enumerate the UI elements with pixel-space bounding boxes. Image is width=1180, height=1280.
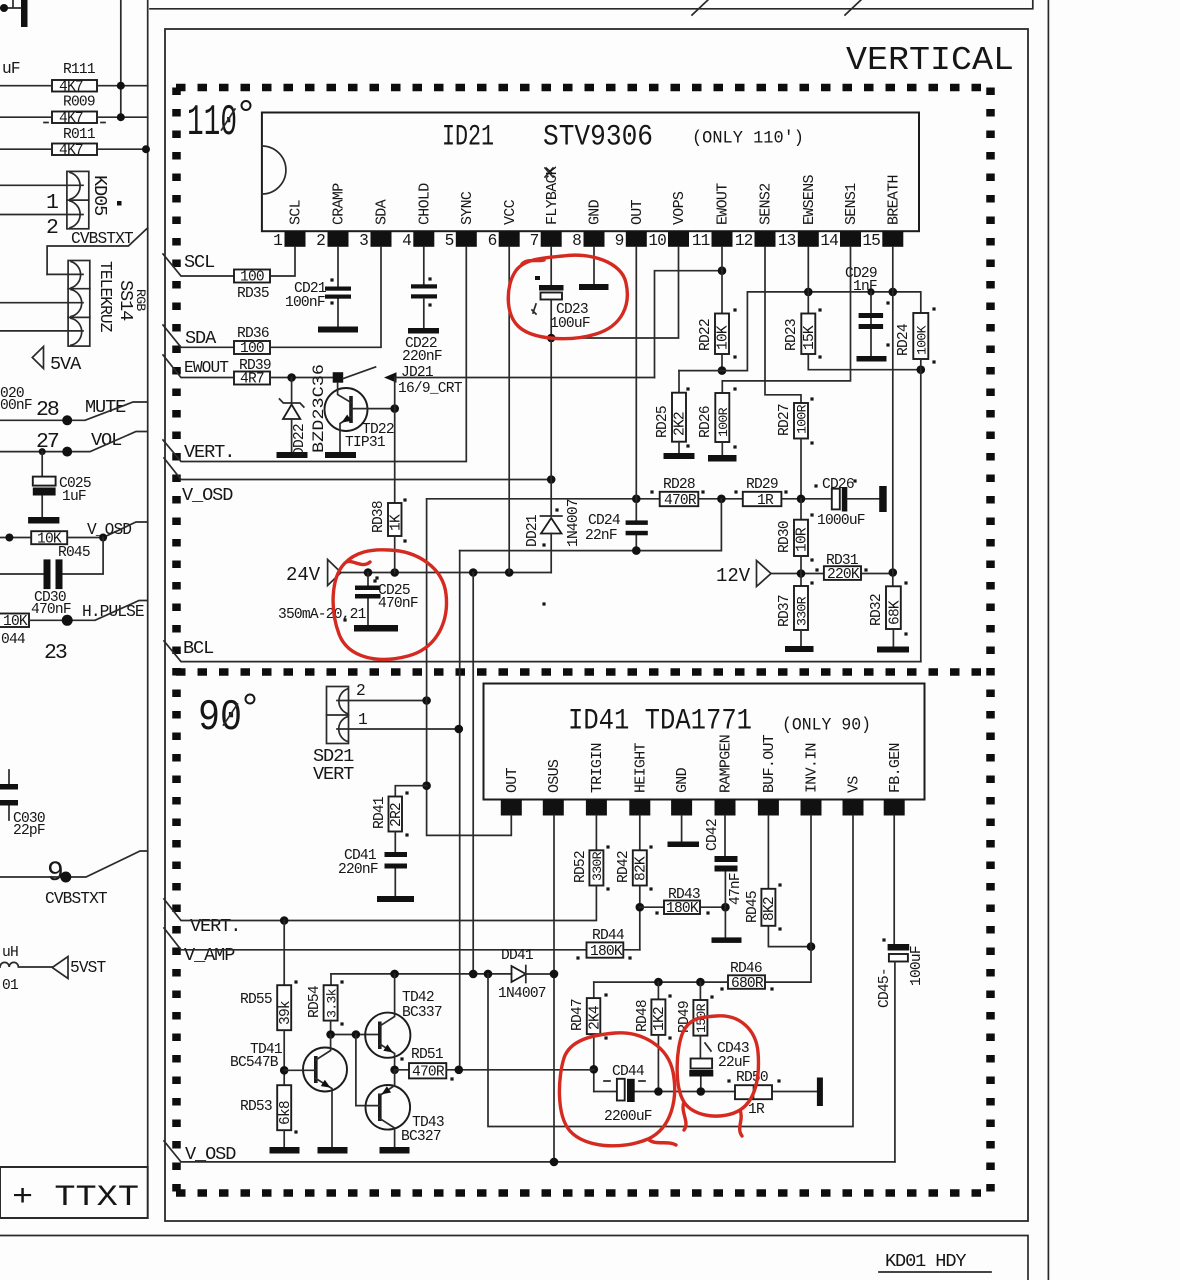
wire RD30 bottom bbox=[800, 556, 802, 574]
svg-text:4: 4 bbox=[402, 232, 411, 250]
wire EWOUT to net271 riser bbox=[397, 377, 655, 379]
transistor TD22 circle bbox=[325, 388, 368, 431]
svg-text:SENS2: SENS2 bbox=[758, 183, 775, 225]
capacitor CD21 bbox=[337, 247, 339, 327]
wire RD46 row bbox=[594, 981, 728, 983]
CVBSTXT wire with diagonal to bus bbox=[47, 228, 148, 274]
junction pin11 net271 bbox=[718, 266, 727, 275]
wire HEIGHT to RD42 bbox=[639, 816, 641, 851]
connector KD05 body bbox=[67, 171, 89, 228]
junction V_OSD bbox=[99, 534, 107, 542]
supply symbol 5VA bbox=[32, 347, 43, 369]
wire RD47 bottom bbox=[593, 1034, 595, 1091]
resistor RD51 bbox=[395, 1069, 409, 1071]
connector SD21 body bbox=[327, 687, 349, 744]
svg-text:14: 14 bbox=[820, 232, 838, 250]
wire VS loop bbox=[488, 816, 853, 1127]
wire RD51 to RD47 bbox=[446, 1069, 594, 1071]
svg-text:RD30: RD30 bbox=[777, 521, 793, 553]
svg-text:6k8: 6k8 bbox=[278, 1101, 294, 1125]
svg-text:SS14: SS14 bbox=[115, 280, 136, 321]
svg-text:68K: 68K bbox=[887, 600, 903, 625]
wire RD55 bottom bbox=[283, 1030, 285, 1085]
wire BUF.OUT to RD45 bbox=[767, 816, 769, 889]
CD44 ticks bbox=[604, 1080, 645, 1082]
svg-text:47nF: 47nF bbox=[728, 873, 744, 905]
bottom sheet frame (KD01 HDY) bbox=[0, 1236, 1028, 1280]
resistor RD43 bbox=[640, 906, 726, 908]
pin8 ground plate bbox=[593, 247, 595, 284]
wire FB.GEN to CD45 bbox=[893, 816, 895, 945]
resistor RD37 bbox=[800, 574, 802, 587]
svg-text:6: 6 bbox=[488, 232, 497, 250]
wire to cap bar bbox=[0, 0, 21, 8]
svg-text:V_OSD: V_OSD bbox=[182, 485, 233, 506]
TELEKRUZ pin 3 wire bbox=[0, 330, 83, 332]
svg-text:2: 2 bbox=[46, 216, 58, 240]
wire TRIGIN to RD52 bbox=[595, 816, 597, 851]
svg-text:DD22: DD22 bbox=[292, 424, 308, 456]
resistor RD46 bbox=[728, 975, 765, 989]
wire RD44 to RD42 column bbox=[623, 949, 640, 951]
svg-text:22uF: 22uF bbox=[718, 1055, 750, 1071]
svg-text:8K2: 8K2 bbox=[762, 897, 778, 921]
wire INV.IN column bbox=[765, 816, 811, 983]
svg-text:EWSENS: EWSENS bbox=[801, 174, 818, 225]
IC pins bbox=[501, 800, 905, 816]
wire R111 bbox=[0, 85, 148, 87]
ground TD22 bbox=[325, 452, 356, 458]
diode DD41 bbox=[331, 973, 554, 975]
svg-text:DD21: DD21 bbox=[525, 514, 541, 547]
junction RD54/TD42 base bbox=[326, 1030, 335, 1039]
svg-text:4K7: 4K7 bbox=[59, 80, 83, 96]
svg-text:82K: 82K bbox=[634, 856, 650, 881]
svg-text:RD48: RD48 bbox=[635, 1000, 651, 1032]
switch JD21 arrow bbox=[384, 372, 397, 382]
svg-text:01: 01 bbox=[2, 978, 19, 994]
wire CD23 to VOPS pin10 bbox=[551, 247, 678, 338]
TD41 emitter lead with arrow bbox=[316, 1079, 332, 1148]
junction R011/bus bbox=[142, 145, 150, 153]
resistor RD29 bbox=[743, 492, 782, 506]
resistor RD45 bbox=[761, 889, 775, 926]
svg-text:100R: 100R bbox=[716, 407, 731, 437]
svg-text:220K: 220K bbox=[827, 567, 860, 583]
wire RD22 junction to RD25 bbox=[679, 370, 722, 372]
svg-text:R111: R111 bbox=[63, 62, 96, 78]
resistor RD28 bbox=[660, 492, 699, 506]
wire VERT row to RD52 bbox=[164, 886, 596, 921]
svg-text:CRAMP: CRAMP bbox=[331, 183, 348, 225]
svg-text:5VA: 5VA bbox=[50, 354, 82, 375]
resistor RD24 bbox=[913, 313, 928, 359]
svg-text:RD52: RD52 bbox=[573, 851, 589, 883]
svg-text:350mA-20,21: 350mA-20,21 bbox=[278, 607, 367, 623]
wire pin9 OUT drop bbox=[635, 247, 637, 499]
junction SD21 pin2 / OUT column bbox=[422, 696, 431, 705]
wire pin6 VCC drop bbox=[508, 247, 510, 573]
junction net292 pin13 bbox=[804, 288, 813, 297]
svg-text:100K: 100K bbox=[915, 325, 930, 355]
tick marks R009 bbox=[44, 122, 105, 124]
svg-text:10K: 10K bbox=[716, 325, 732, 350]
svg-text:1uF: 1uF bbox=[62, 489, 86, 505]
junction TD43 base drop bbox=[352, 1030, 361, 1039]
svg-text:EWOUT: EWOUT bbox=[715, 183, 732, 225]
svg-text:RD45: RD45 bbox=[745, 891, 761, 923]
wire RD45 to INV.IN bbox=[768, 926, 811, 947]
svg-text:1N4007: 1N4007 bbox=[498, 986, 546, 1002]
svg-text:BC337: BC337 bbox=[402, 1005, 442, 1021]
resistor RD31 bbox=[824, 566, 861, 580]
svg-text:1R: 1R bbox=[748, 1102, 765, 1118]
capacitor CD24 bbox=[635, 499, 637, 551]
net292 wire RD22 to RD24 bbox=[722, 292, 921, 371]
resistor RD42 bbox=[633, 850, 647, 885]
svg-text:3: 3 bbox=[359, 232, 368, 250]
SD21 pin2 wire bbox=[337, 700, 427, 702]
TD42 emitter lead with arrow bbox=[380, 1044, 395, 1070]
capacitor CD45 bbox=[888, 944, 910, 951]
slash marks on top sheet edge bbox=[692, 0, 863, 15]
svg-text:RD42: RD42 bbox=[616, 851, 632, 883]
svg-text:8: 8 bbox=[572, 232, 581, 250]
svg-text:+ TTXT: + TTXT bbox=[12, 1181, 139, 1215]
resistor RD41 bbox=[395, 786, 426, 797]
svg-text:TIP31: TIP31 bbox=[345, 435, 386, 451]
junction DD41/VS loop bbox=[484, 970, 493, 979]
junction RD48 top bbox=[654, 978, 663, 987]
switch JD21 pad bbox=[333, 372, 344, 383]
wire pin11 drop bbox=[721, 247, 723, 314]
junction net292 pin15 bbox=[889, 288, 898, 297]
junction CD44/CD43 bbox=[697, 1087, 706, 1096]
junction RD42/RD43 bbox=[636, 903, 645, 912]
svg-text:RD29: RD29 bbox=[746, 477, 778, 493]
left vertical bus of margin circuit bbox=[147, 0, 149, 1167]
svg-text:RD37: RD37 bbox=[777, 595, 793, 627]
svg-text:1: 1 bbox=[46, 191, 58, 215]
svg-text:INV.IN: INV.IN bbox=[804, 743, 821, 793]
TD22 collector lead bbox=[338, 383, 351, 403]
connector TELEKRUZ SS14 body bbox=[68, 261, 90, 347]
svg-text:VERT: VERT bbox=[313, 764, 354, 785]
svg-text:12V: 12V bbox=[716, 565, 751, 587]
capacitor CD41 bbox=[394, 832, 396, 897]
svg-text:4R7: 4R7 bbox=[240, 372, 264, 388]
wire SDA entry bbox=[163, 325, 234, 347]
svg-text:100: 100 bbox=[240, 270, 264, 286]
wire y550 drop to 90 section bbox=[459, 551, 461, 1070]
svg-text:KD05: KD05 bbox=[89, 175, 110, 215]
wire CVBSTXT bottom bbox=[0, 851, 148, 877]
wire RD38 bottom bbox=[394, 536, 396, 573]
wire R009 bbox=[0, 116, 148, 118]
wire RD22 bottom bbox=[721, 354, 723, 371]
junction VOL bbox=[62, 447, 72, 457]
capacitor CD29 bbox=[870, 292, 872, 356]
resistor R045 10K bbox=[31, 531, 67, 544]
capacitor C025 (polarized) bbox=[41, 452, 43, 517]
svg-text:OUT: OUT bbox=[504, 767, 521, 793]
svg-text:TD42: TD42 bbox=[402, 990, 434, 1006]
op-amp IC U ID21 STV9306 body bbox=[262, 113, 919, 232]
svg-text:7: 7 bbox=[530, 232, 539, 250]
ground RD37 bbox=[800, 630, 802, 646]
junction RD49 top bbox=[696, 978, 705, 987]
svg-text:16/9_CRT: 16/9_CRT bbox=[398, 381, 463, 397]
svg-text:CD42: CD42 bbox=[705, 819, 721, 851]
svg-text:RGB: RGB bbox=[133, 289, 148, 311]
resistor RD48 bbox=[657, 982, 659, 999]
supply symbol 5VST bbox=[52, 957, 68, 979]
svg-text:044: 044 bbox=[1, 632, 26, 648]
wire RD35 to pin1 bbox=[270, 247, 295, 276]
resistor RD47 bbox=[593, 982, 595, 998]
junction CD29 tap bbox=[867, 288, 874, 295]
svg-text:SCL: SCL bbox=[184, 252, 214, 273]
wire V_AMP row to RD44 bbox=[164, 928, 587, 950]
wire 12V row bbox=[771, 573, 893, 575]
resistor RD26 bbox=[715, 393, 729, 442]
junction RD41 tap bbox=[422, 781, 431, 790]
svg-text:4K7: 4K7 bbox=[59, 143, 83, 159]
junction R111/bus bbox=[117, 82, 125, 90]
svg-text:RD25: RD25 bbox=[655, 406, 671, 438]
svg-text:330R: 330R bbox=[795, 596, 810, 626]
TD43 base bar bbox=[378, 1094, 382, 1122]
resistor RD49 bbox=[699, 982, 701, 1000]
transistor TD41 circle bbox=[303, 1048, 347, 1092]
switch JD21 blade bbox=[343, 367, 375, 379]
red circle around CD25 bbox=[333, 550, 446, 660]
inductor coil bbox=[0, 962, 52, 967]
svg-text:2R2: 2R2 bbox=[389, 803, 405, 827]
svg-text:ID41 TDA1771: ID41 TDA1771 bbox=[568, 705, 752, 739]
junction VCC bbox=[505, 568, 514, 577]
wire net271 EWOUT to pin11 bbox=[655, 271, 723, 378]
svg-text:680R: 680R bbox=[731, 976, 764, 992]
solder tick marks bbox=[294, 277, 935, 1133]
svg-text:ID21: ID21 bbox=[442, 121, 494, 155]
junction DD41/TD42 bbox=[390, 970, 399, 979]
junction V_OSD pin7 bbox=[547, 475, 556, 484]
resistor RD50 bbox=[735, 1085, 772, 1099]
dot mark bbox=[117, 201, 122, 206]
svg-text:BUF.OUT: BUF.OUT bbox=[761, 734, 778, 793]
TD41 base bar bbox=[314, 1056, 318, 1083]
capacitor CD44 row bbox=[594, 1091, 817, 1093]
wire pin14 SENS1 to RD26 bbox=[722, 247, 850, 393]
svg-text:RD24: RD24 bbox=[896, 323, 912, 356]
svg-text:5VST: 5VST bbox=[70, 959, 106, 977]
svg-text:OSUS: OSUS bbox=[546, 759, 563, 793]
junction C025 tap bbox=[39, 448, 46, 455]
svg-text:CHOLD: CHOLD bbox=[416, 183, 433, 225]
ground bar C025 bbox=[28, 517, 59, 524]
svg-text:HEIGHT: HEIGHT bbox=[632, 742, 649, 793]
svg-text:00nF: 00nF bbox=[0, 398, 32, 414]
svg-text:BREATH: BREATH bbox=[885, 175, 902, 225]
wire SCL entry bbox=[163, 254, 234, 276]
svg-text:470nF: 470nF bbox=[378, 596, 418, 612]
svg-text:11: 11 bbox=[692, 232, 710, 250]
svg-text:R011: R011 bbox=[63, 127, 96, 143]
resistor RD27 bbox=[794, 403, 808, 439]
svg-text:RD38: RD38 bbox=[371, 501, 387, 533]
svg-text:330R: 330R bbox=[590, 851, 605, 881]
junction TD41 base bbox=[280, 1066, 289, 1075]
capacitor CD25 bbox=[367, 573, 369, 626]
wire arrow pad to collector node bbox=[394, 378, 396, 409]
svg-text:RD55: RD55 bbox=[240, 992, 272, 1008]
junction RD22 bottom bbox=[718, 366, 727, 375]
svg-text:SYNC: SYNC bbox=[459, 191, 476, 225]
svg-text:100uF: 100uF bbox=[909, 946, 925, 986]
junction RD47/RD51 row bbox=[590, 1065, 599, 1074]
wire RD27 to main line bbox=[800, 439, 802, 499]
pin names rotated bbox=[504, 734, 904, 793]
svg-text:VOPS: VOPS bbox=[671, 191, 688, 225]
diode DD21 bbox=[541, 515, 562, 517]
dotted border 110/90 sections outer bbox=[176, 88, 991, 1194]
junction RD31/RD32 bbox=[889, 568, 898, 577]
svg-text:(ONLY 90): (ONLY 90) bbox=[782, 716, 871, 736]
svg-text:VERTICAL: VERTICAL bbox=[846, 42, 1014, 79]
junction CVBSTXT bbox=[60, 872, 71, 883]
wire 24V row bbox=[341, 572, 551, 574]
wire V_OSD row bbox=[164, 1141, 895, 1162]
svg-text:VERT.: VERT. bbox=[190, 916, 240, 937]
resistor R111 bbox=[52, 80, 97, 92]
wire RD23 bottom to RD24 column bbox=[808, 354, 921, 370]
capacitor CD43 bbox=[699, 1036, 701, 1092]
wire V_OSD entry bbox=[164, 458, 551, 480]
svg-text:1K2: 1K2 bbox=[652, 1007, 668, 1031]
wire R011 bbox=[0, 148, 148, 150]
svg-text:RD23: RD23 bbox=[784, 319, 800, 351]
junction CD25 bbox=[364, 568, 373, 577]
resistor RD23 bbox=[801, 314, 815, 355]
svg-text:R009: R009 bbox=[63, 95, 95, 111]
wire RD36 to pin3 bbox=[270, 247, 381, 347]
TD22 collector node wire bbox=[351, 408, 395, 410]
TD22 base bar bbox=[349, 396, 353, 423]
junction RD28/RD29 bbox=[717, 495, 726, 504]
resistor RD54 bbox=[330, 974, 332, 985]
CD23 polarity ticks bbox=[535, 276, 540, 280]
svg-text:110: 110 bbox=[187, 98, 237, 148]
junction RD38 bottom bbox=[390, 568, 399, 577]
wire pin7 column mid bbox=[550, 338, 552, 516]
svg-text:2: 2 bbox=[316, 232, 325, 250]
svg-text:13: 13 bbox=[778, 232, 796, 250]
junction DD22 bbox=[287, 373, 296, 382]
wire pin12 SENS2 to RD27 bbox=[765, 247, 801, 403]
svg-text:EWOUT: EWOUT bbox=[184, 359, 229, 377]
capacitor CD26 polarized bbox=[832, 489, 840, 510]
TD43 base wire bbox=[356, 1035, 380, 1106]
transistor TD43 circle bbox=[366, 1085, 411, 1130]
svg-text:CD44: CD44 bbox=[612, 1064, 645, 1080]
wire 24V drop to 90 section bbox=[472, 573, 474, 975]
svg-text:TRIGIN: TRIGIN bbox=[589, 743, 606, 793]
resistor R044 10K (cut) bbox=[0, 614, 29, 628]
svg-text:RD47: RD47 bbox=[570, 999, 586, 1031]
svg-text:RD41: RD41 bbox=[372, 796, 388, 829]
resistor R009 bbox=[52, 112, 97, 124]
svg-text:2: 2 bbox=[356, 682, 365, 700]
svg-text:V_AMP: V_AMP bbox=[184, 945, 235, 966]
svg-text:GND: GND bbox=[674, 767, 691, 793]
svg-text:1: 1 bbox=[273, 232, 282, 250]
pin numbers bbox=[273, 232, 880, 250]
svg-text:220nF: 220nF bbox=[338, 862, 378, 878]
wire into TELEKRUZ pin1 bbox=[47, 273, 83, 275]
wire RD48 bottom bbox=[657, 1035, 659, 1092]
junction CD23 bottom bbox=[547, 334, 556, 343]
resistor RD38 bbox=[394, 409, 396, 503]
svg-text:uH: uH bbox=[2, 945, 18, 961]
junction RD43/CD42 bbox=[721, 903, 730, 912]
svg-text:VERT.: VERT. bbox=[184, 442, 234, 463]
svg-text:4K7: 4K7 bbox=[59, 111, 83, 127]
resistor RD32 bbox=[892, 573, 894, 587]
svg-text:9: 9 bbox=[615, 232, 624, 250]
main VERTICAL frame box bbox=[165, 29, 1028, 1221]
svg-text:2K4: 2K4 bbox=[588, 1005, 604, 1030]
svg-text:CVBSTXT: CVBSTXT bbox=[45, 890, 108, 908]
svg-text:10: 10 bbox=[648, 232, 666, 250]
ground RD26 bbox=[721, 442, 723, 455]
resistor RD25 bbox=[678, 371, 680, 393]
ground DD22 bbox=[277, 452, 308, 458]
zener diode DD22 bbox=[280, 378, 304, 408]
svg-text:15K: 15K bbox=[802, 325, 818, 350]
SD21 pin1 wire bbox=[337, 728, 459, 730]
svg-text:100uF: 100uF bbox=[550, 316, 590, 332]
wire RD54 to TD42 base bbox=[331, 1021, 380, 1035]
svg-text:10K: 10K bbox=[3, 614, 28, 630]
svg-text:CD24: CD24 bbox=[588, 513, 621, 529]
junction RD29/CD26/RD30 bbox=[797, 495, 806, 504]
wire pin13 drop to RD23 bbox=[807, 247, 809, 314]
junction RD24 column bbox=[917, 365, 926, 374]
TD42 base bar bbox=[378, 1022, 382, 1050]
svg-text:22nF: 22nF bbox=[585, 528, 617, 544]
svg-text:RD53: RD53 bbox=[240, 1099, 272, 1115]
svg-text:BC547B: BC547B bbox=[230, 1055, 279, 1071]
svg-text:470R: 470R bbox=[412, 1065, 445, 1081]
svg-text:1R: 1R bbox=[757, 493, 774, 509]
TD43 emitter lead with arrow bbox=[380, 1070, 395, 1096]
svg-text:FLYBACK: FLYBACK bbox=[544, 166, 561, 225]
svg-text:BCL: BCL bbox=[183, 638, 213, 659]
svg-text:23: 23 bbox=[44, 641, 67, 665]
junction INV.IN/RD45 bbox=[807, 942, 816, 951]
svg-text:STV9306: STV9306 bbox=[543, 121, 653, 155]
svg-text:RD32: RD32 bbox=[869, 594, 885, 626]
wire y550 row bbox=[460, 499, 722, 551]
svg-text:90: 90 bbox=[198, 693, 242, 743]
svg-text:2K2: 2K2 bbox=[673, 412, 689, 436]
junction R009/bus bbox=[117, 113, 125, 121]
svg-text:470R: 470R bbox=[664, 493, 697, 509]
svg-text:RD26: RD26 bbox=[698, 406, 714, 438]
node dot bbox=[0, 4, 8, 12]
wire H.PULSE bbox=[29, 601, 148, 621]
